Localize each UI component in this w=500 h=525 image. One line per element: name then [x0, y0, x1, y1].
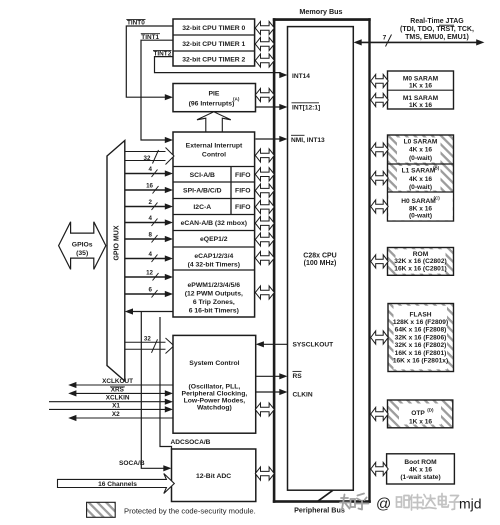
svg-text:32: 32: [144, 155, 151, 162]
svg-text:RS: RS: [293, 373, 303, 380]
svg-text:64K x 16 (F2808): 64K x 16 (F2808): [395, 327, 447, 334]
svg-text:32K x 16 (C2802): 32K x 16 (C2802): [394, 258, 446, 265]
svg-text:12-Bit ADC: 12-Bit ADC: [196, 473, 231, 480]
svg-text:32-bit CPU TIMER 1: 32-bit CPU TIMER 1: [182, 41, 245, 48]
svg-text:Peripheral Bus: Peripheral Bus: [294, 506, 345, 515]
svg-text:Protected by the code-security: Protected by the code-security module.: [124, 506, 256, 515]
svg-text:16: 16: [146, 182, 153, 189]
svg-text:32-bit CPU TIMER 0: 32-bit CPU TIMER 0: [182, 25, 245, 32]
svg-text:16 Channels: 16 Channels: [98, 481, 137, 488]
svg-text:SCI-A/B: SCI-A/B: [190, 172, 215, 179]
svg-text:Control: Control: [202, 152, 226, 159]
svg-text:eCAN-A/B (32 mbox): eCAN-A/B (32 mbox): [181, 220, 247, 227]
svg-text:Low-Power Modes,: Low-Power Modes,: [184, 398, 246, 405]
svg-text:eQEP1/2: eQEP1/2: [200, 236, 228, 243]
svg-text:(1-wait state): (1-wait state): [400, 474, 440, 481]
svg-text:OTP: OTP: [411, 410, 425, 417]
svg-text:eCAP1/2/3/4: eCAP1/2/3/4: [194, 253, 233, 260]
svg-text:6: 6: [149, 286, 153, 293]
svg-text:4: 4: [149, 215, 153, 222]
svg-text:NMI, INT13: NMI, INT13: [291, 137, 325, 144]
svg-text:16K x 16 (F2801x): 16K x 16 (F2801x): [393, 358, 448, 365]
svg-text:1K x 16: 1K x 16: [409, 82, 432, 89]
svg-text:M0 SARAM: M0 SARAM: [403, 75, 439, 82]
svg-text:32-bit CPU TIMER 2: 32-bit CPU TIMER 2: [182, 56, 245, 63]
svg-text:(0-wait): (0-wait): [409, 213, 432, 220]
svg-text:SYSCLKOUT: SYSCLKOUT: [293, 341, 334, 348]
svg-text:6 16-bit Timers): 6 16-bit Timers): [189, 308, 239, 315]
svg-text:C28x CPU: C28x CPU: [303, 253, 336, 260]
svg-text:(12 PWM Outputs,: (12 PWM Outputs,: [185, 291, 243, 298]
svg-text:GPIO MUX: GPIO MUX: [113, 225, 120, 260]
svg-text:XCLKIN: XCLKIN: [106, 395, 130, 402]
svg-text:INT14: INT14: [292, 73, 310, 80]
svg-text:TMS, EMU0, EMU1): TMS, EMU0, EMU1): [405, 34, 469, 41]
svg-text:Peripheral Clocking,: Peripheral Clocking,: [182, 391, 248, 398]
svg-text:(35): (35): [76, 250, 88, 257]
svg-text:H0 SARAM: H0 SARAM: [401, 198, 436, 205]
svg-text:L0 SARAM: L0 SARAM: [404, 139, 438, 146]
svg-text:16K x 16 (F2801): 16K x 16 (F2801): [395, 350, 447, 357]
svg-text:External Interrupt: External Interrupt: [186, 142, 243, 149]
svg-text:(96 Interrupts): (96 Interrupts): [189, 100, 235, 107]
svg-text:(TDI, TDO, TRST, TCK,: (TDI, TDO, TRST, TCK,: [400, 26, 474, 33]
svg-text:(D): (D): [427, 407, 434, 412]
svg-text:32K x 16 (F2802): 32K x 16 (F2802): [395, 342, 447, 349]
svg-text:7: 7: [383, 35, 387, 42]
svg-text:32: 32: [144, 336, 151, 343]
svg-text:ROM: ROM: [413, 251, 429, 258]
svg-text:8: 8: [149, 231, 153, 238]
svg-text:12: 12: [146, 269, 153, 276]
svg-text:(C): (C): [434, 195, 441, 200]
svg-text:mjd: mjd: [459, 496, 482, 512]
svg-text:XCLKOUT: XCLKOUT: [102, 378, 133, 385]
svg-text:1K x 16: 1K x 16: [409, 419, 432, 426]
svg-text:(4 32-bit Timers): (4 32-bit Timers): [188, 261, 240, 268]
svg-text:SPI-A/B/C/D: SPI-A/B/C/D: [183, 188, 222, 195]
svg-text:Memory Bus: Memory Bus: [299, 7, 342, 16]
svg-text:(Oscillator, PLL,: (Oscillator, PLL,: [189, 384, 241, 391]
svg-text:(A): (A): [233, 97, 240, 102]
svg-text:FLASH: FLASH: [410, 311, 432, 318]
svg-text:ADCSOCA/B: ADCSOCA/B: [171, 439, 211, 446]
svg-text:8K x 16: 8K x 16: [409, 205, 432, 212]
svg-text:1K x 16: 1K x 16: [409, 102, 432, 109]
svg-text:(0-wait): (0-wait): [409, 184, 432, 191]
svg-text:Watchdog): Watchdog): [197, 405, 232, 412]
svg-text:L1 SARAM: L1 SARAM: [402, 168, 436, 175]
svg-text:CLKIN: CLKIN: [293, 391, 313, 398]
svg-text:(100 MHz): (100 MHz): [304, 260, 337, 267]
svg-text:@: @: [376, 496, 391, 513]
svg-text:Real-Time JTAG: Real-Time JTAG: [410, 18, 464, 25]
svg-text:I2C-A: I2C-A: [193, 204, 211, 211]
svg-text:2: 2: [149, 199, 153, 206]
svg-text:INT[12:1]: INT[12:1]: [292, 105, 320, 112]
svg-text:X2: X2: [112, 411, 120, 418]
svg-text:128K x 16 (F2809): 128K x 16 (F2809): [393, 319, 448, 326]
svg-text:(B): (B): [433, 165, 440, 170]
svg-text:4K x 16: 4K x 16: [409, 466, 432, 473]
svg-text:FIFO: FIFO: [235, 204, 250, 211]
svg-text:Boot ROM: Boot ROM: [404, 459, 437, 466]
svg-text:FIFO: FIFO: [235, 172, 250, 179]
svg-text:FIFO: FIFO: [235, 188, 250, 195]
svg-text:4: 4: [149, 166, 153, 173]
svg-text:System Control: System Control: [189, 360, 239, 367]
svg-text:4K x 16: 4K x 16: [409, 147, 432, 154]
svg-text:6 Trip Zones,: 6 Trip Zones,: [193, 299, 235, 306]
svg-text:4K x 16: 4K x 16: [409, 176, 432, 183]
svg-text:(0-wait): (0-wait): [409, 155, 432, 162]
svg-text:32K x 16 (F2806): 32K x 16 (F2806): [395, 334, 447, 341]
svg-text:PIE: PIE: [209, 90, 220, 97]
svg-text:4: 4: [149, 251, 153, 258]
svg-text:X1: X1: [112, 402, 120, 409]
svg-text:16K x 16 (C2801): 16K x 16 (C2801): [394, 265, 446, 272]
svg-text:GPIOs: GPIOs: [72, 241, 93, 248]
svg-text:SOCA/B: SOCA/B: [119, 460, 145, 467]
svg-text:ePWM1/2/3/4/5/6: ePWM1/2/3/4/5/6: [188, 282, 241, 289]
